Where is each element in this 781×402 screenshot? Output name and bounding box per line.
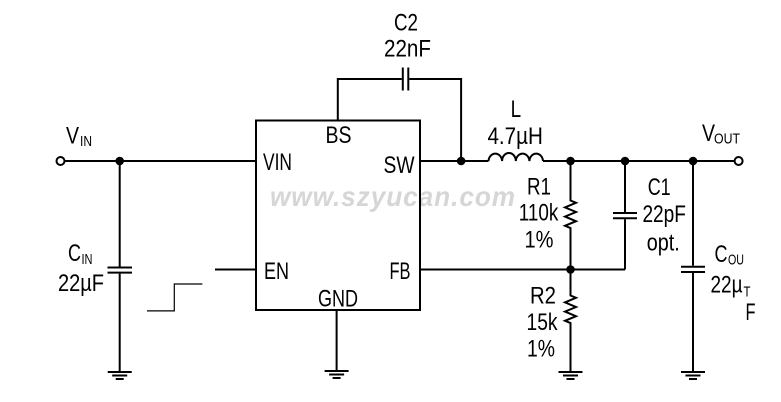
svg-text:EN: EN	[264, 258, 289, 285]
pin label FB	[390, 258, 411, 285]
node R1 top junction	[566, 157, 575, 166]
svg-text:C1: C1	[648, 174, 671, 201]
label C2	[384, 10, 431, 63]
label R2	[527, 283, 559, 363]
svg-text:22µF: 22µF	[58, 270, 104, 297]
label VIN	[66, 123, 92, 151]
label R1	[519, 174, 559, 254]
label VOUT	[702, 120, 740, 148]
wire BS to C2	[338, 79, 402, 121]
terminal VIN	[57, 157, 65, 165]
wire SW stub	[420, 160, 489, 162]
svg-text:OUT: OUT	[714, 132, 740, 148]
pin label BS	[326, 122, 352, 149]
ground (COUT)	[681, 372, 705, 379]
wire output rail	[543, 160, 735, 162]
svg-text:C2: C2	[394, 10, 418, 37]
label COUT	[711, 241, 756, 326]
ground (CIN)	[108, 372, 132, 379]
svg-text:1%: 1%	[527, 336, 555, 363]
capacitor C2	[403, 68, 409, 91]
pin label GND	[318, 286, 358, 313]
svg-text:BS: BS	[326, 122, 352, 149]
step waveform (EN)	[147, 284, 202, 311]
wire GND pin	[336, 310, 338, 371]
svg-text:opt.: opt.	[647, 230, 680, 257]
svg-text:22nF: 22nF	[384, 36, 431, 63]
svg-text:V: V	[66, 123, 79, 150]
IC U1	[256, 121, 420, 311]
watermark	[270, 181, 516, 212]
svg-text:R2: R2	[530, 283, 556, 310]
node input junction	[115, 157, 124, 166]
svg-text:VIN: VIN	[263, 149, 292, 176]
svg-text:1%: 1%	[525, 227, 554, 254]
pin label SW	[384, 152, 415, 179]
ground (R2)	[559, 372, 583, 379]
svg-text:4.7µH: 4.7µH	[487, 123, 543, 150]
svg-text:22pF: 22pF	[642, 201, 686, 228]
svg-text:SW: SW	[384, 152, 415, 179]
svg-text:R1: R1	[527, 174, 551, 201]
inductor L	[489, 153, 544, 161]
node FB junction	[566, 265, 575, 274]
svg-text:F: F	[746, 299, 756, 326]
label L	[487, 96, 543, 150]
node SW junction	[457, 157, 466, 166]
wire input rail	[65, 160, 257, 162]
svg-text:C: C	[715, 241, 728, 268]
svg-text:www.szyucan.com: www.szyucan.com	[270, 181, 516, 212]
resistor R1	[565, 161, 576, 270]
label CIN	[58, 240, 104, 297]
svg-text:22µ: 22µ	[711, 272, 743, 299]
terminal VOUT	[735, 157, 743, 165]
capacitor C1	[613, 161, 637, 270]
capacitor COUT	[681, 161, 705, 371]
svg-text:IN: IN	[82, 252, 93, 268]
svg-text:OU: OU	[728, 253, 744, 269]
pin label EN	[264, 258, 289, 285]
svg-text:L: L	[511, 96, 522, 123]
wire C2 to SW node	[409, 79, 461, 161]
svg-text:FB: FB	[390, 258, 411, 285]
svg-text:IN: IN	[80, 134, 92, 150]
label C1	[642, 174, 686, 257]
resistor R2	[565, 270, 576, 372]
wire FB	[420, 269, 625, 271]
capacitor CIN	[108, 161, 133, 371]
node C1 top junction	[621, 157, 630, 166]
svg-text:15k: 15k	[527, 309, 559, 336]
svg-text:GND: GND	[318, 286, 358, 313]
node COUT top junction	[689, 157, 698, 166]
svg-text:C: C	[68, 240, 81, 267]
wire EN stub	[215, 269, 256, 271]
svg-text:110k: 110k	[519, 200, 559, 227]
pin label VIN	[263, 149, 292, 176]
ground (GND pin)	[325, 371, 349, 378]
